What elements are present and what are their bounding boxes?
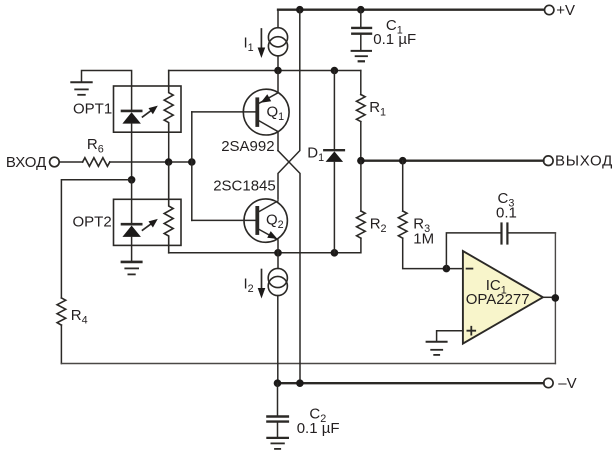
node on +V rail (crossover branch) <box>296 6 304 14</box>
wire: base tie vertical <box>191 112 193 220</box>
node: -V / crossover branch <box>296 379 304 387</box>
node: I1 / Q1 emitter <box>274 67 282 75</box>
-V terminal <box>544 378 553 387</box>
wire: upper horizontal line (OPT1 photoresistor top to R1 corner) <box>169 70 361 72</box>
diode D1 <box>333 71 335 150</box>
ground (below C2) <box>267 437 288 439</box>
wire: LED midpoint to R4 branch <box>61 180 131 298</box>
Q2 emitter with arrow <box>259 230 278 253</box>
svg-text:0.1 µF: 0.1 µF <box>297 420 340 437</box>
wire: R3 top <box>402 161 404 211</box>
+V rail <box>278 9 544 11</box>
wire: ground to OPT1 LED top <box>82 71 132 87</box>
OPT2 light arrow <box>143 222 154 230</box>
wire: +V rail to I1 top <box>277 10 279 28</box>
op-amp minus sign <box>467 268 473 270</box>
wire: I1 bottom to emitter line <box>277 56 279 71</box>
wire: R4 bottom to feedback line corner <box>60 325 62 363</box>
ground (top left) <box>71 81 91 83</box>
OPT1 photoresistor <box>164 71 173 133</box>
I2 direction arrow <box>261 270 263 291</box>
Q1 collector <box>259 121 278 151</box>
svg-text:–V: –V <box>558 375 576 392</box>
wire: lower emitter line <box>169 252 361 254</box>
svg-text:2SA992: 2SA992 <box>221 138 274 155</box>
Q1 emitter wire from upper line <box>259 71 278 104</box>
wire: feedback line (op-amp output to R4) <box>61 363 555 365</box>
svg-text:ВХОД: ВХОД <box>6 154 46 171</box>
svg-text:1M: 1M <box>413 231 434 248</box>
I1 direction arrow <box>260 29 262 50</box>
node: base tie <box>188 158 196 166</box>
current source I2 <box>268 268 287 287</box>
node: -V / I2 / C2 <box>274 379 282 387</box>
current source I1 <box>268 28 287 47</box>
wire: op-amp output <box>543 296 556 298</box>
wire: R3 bottom to op-amp inverting input <box>403 238 463 268</box>
transistor Q1 2SA992 (PNP) <box>243 89 289 135</box>
node: D1 top <box>331 67 339 75</box>
svg-text:0.1 µF: 0.1 µF <box>373 31 416 48</box>
wire: R2 bottom to emitter line <box>360 238 362 253</box>
OPT1 LED vertical wire <box>131 86 133 110</box>
OPT2 LED <box>122 223 141 226</box>
node: D1 bottom <box>331 249 339 257</box>
svg-text:OPT1: OPT1 <box>73 100 112 117</box>
node on +V rail (C1 branch) <box>357 6 365 14</box>
OPT1 light arrow <box>143 109 154 117</box>
svg-text:+V: +V <box>556 2 575 19</box>
wire: non-inverting input to ground <box>437 331 463 342</box>
wire: Q1 base <box>192 111 256 113</box>
svg-text:OPT2: OPT2 <box>73 213 112 230</box>
capacitor C1 <box>352 27 371 29</box>
resistor R6 <box>83 158 110 167</box>
wire: C3 right to output branch <box>508 232 555 234</box>
wire: R1 bottom to output node <box>360 122 362 161</box>
wire: -V rail down to C2 <box>277 383 279 415</box>
-V rail <box>278 382 544 384</box>
ground (below C1) <box>352 50 371 52</box>
transistor Q2 2SC1845 (NPN) <box>244 199 287 242</box>
node: Q2 emitter / I2 <box>274 249 282 257</box>
svg-text:OPA2277: OPA2277 <box>466 291 530 308</box>
node: op-amp output <box>552 294 560 302</box>
resistor R1 <box>357 95 366 122</box>
node: LED midpoint <box>128 176 136 184</box>
output rail <box>361 160 544 162</box>
wire: feedback down right side <box>554 233 556 364</box>
Q1 emitter arrow (PNP, into base) <box>261 94 272 102</box>
op-amp IC1 OPA2277 <box>463 251 543 344</box>
wire: input terminal to R6 <box>59 161 82 163</box>
Q2 collector <box>259 201 278 212</box>
wire: crossover Q1 collector to -V <box>278 151 300 384</box>
OPT1 LED <box>122 110 141 113</box>
node: photoresistors junction <box>165 158 173 166</box>
op-amp plus sign <box>467 327 475 335</box>
wire: feedback up from inverting node <box>446 233 500 269</box>
optocoupler OPT2 box <box>114 199 182 245</box>
OPT2 photoresistor <box>164 162 173 253</box>
resistor R2 <box>357 211 366 238</box>
node: R3 top <box>399 157 407 165</box>
wire: R6 to bases node <box>110 161 192 163</box>
node: inverting input / C3 <box>443 265 451 273</box>
wire: output node down to R2 <box>360 161 362 211</box>
optocoupler OPT1 box <box>114 86 182 132</box>
wire: upper line corner down to R1 <box>360 71 362 95</box>
node: R1/R2/output <box>357 157 365 165</box>
wire: emitter line to I2 <box>277 253 279 269</box>
ground (op-amp + input) <box>427 341 447 343</box>
wire: I2 bottom to -V rail <box>277 296 279 384</box>
ВХОД terminal <box>50 157 60 167</box>
ground (below OPT2 LED) <box>122 261 141 264</box>
wire: OPT1 LED bottom to LED midpoint node <box>131 132 133 180</box>
wire: crossover +V to Q2 collector <box>278 10 300 199</box>
resistor R4 <box>57 298 66 325</box>
wire: OPT1 photoresistor bottom to input line <box>168 132 170 162</box>
ВЫХОД terminal <box>544 156 554 166</box>
svg-text:ВЫХОД: ВЫХОД <box>555 153 613 170</box>
svg-text:2SC1845: 2SC1845 <box>213 178 276 195</box>
wire: Q2 base <box>192 219 256 221</box>
wire: LED midpoint to OPT2 LED <box>131 180 133 224</box>
wire: +V rail to C1 <box>360 10 362 27</box>
svg-text:0.1: 0.1 <box>496 205 517 222</box>
resistor R3 <box>398 211 407 238</box>
+V terminal <box>545 5 554 14</box>
capacitor C2 <box>267 415 288 417</box>
capacitor C3 <box>500 224 502 244</box>
